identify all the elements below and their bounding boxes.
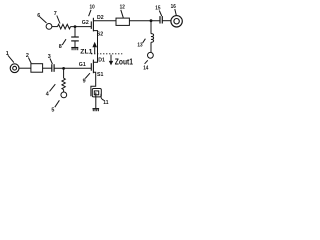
svg-text:12: 12 bbox=[120, 5, 125, 11]
wire bbox=[71, 26, 92, 28]
svg-text:G1: G1 bbox=[79, 62, 86, 68]
node junction bbox=[74, 25, 77, 28]
svg-text:D2: D2 bbox=[97, 15, 104, 21]
resistor 4 bbox=[62, 78, 65, 89]
port 5 bbox=[61, 92, 67, 98]
wire bbox=[63, 68, 65, 78]
label 5 bbox=[51, 100, 59, 113]
label 3 bbox=[48, 54, 53, 64]
wire S2 to D1 bbox=[93, 31, 97, 63]
wire drain node to inductor bbox=[150, 21, 152, 34]
label 2 bbox=[26, 53, 31, 63]
wire bbox=[52, 26, 58, 28]
svg-text:13: 13 bbox=[137, 43, 142, 49]
inductor 13 bbox=[151, 34, 154, 43]
wire drain D2 bbox=[93, 20, 116, 22]
capacitor 15 bbox=[160, 16, 162, 23]
port 14 bbox=[148, 52, 154, 58]
dashed reference line bbox=[91, 53, 122, 55]
transistor Q1 gate bar bbox=[90, 63, 92, 70]
wire bbox=[19, 67, 31, 69]
label 4 bbox=[46, 84, 56, 97]
transistor Q2 channel bbox=[92, 18, 94, 32]
svg-text:6: 6 bbox=[37, 13, 40, 19]
label 10 bbox=[89, 5, 95, 17]
node junction bbox=[150, 19, 153, 22]
port 1 bbox=[10, 64, 19, 73]
transistor Q2 gate bar bbox=[90, 21, 92, 29]
transistor Q1 channel bbox=[92, 60, 94, 74]
wire center tap bbox=[95, 92, 97, 108]
wire bbox=[162, 20, 171, 22]
inductor 11 spiral inner bbox=[94, 91, 98, 95]
label 15 bbox=[155, 6, 161, 16]
label 8 bbox=[59, 39, 66, 50]
label 1 bbox=[6, 51, 14, 63]
label 14 bbox=[143, 60, 148, 71]
wire gate G1 bbox=[54, 67, 91, 69]
svg-text:G2: G2 bbox=[82, 20, 89, 26]
wire S1 bbox=[91, 72, 96, 96]
svg-text:14: 14 bbox=[143, 66, 148, 72]
capacitor 8 bbox=[71, 27, 79, 48]
wire bbox=[129, 20, 159, 22]
label 9 bbox=[83, 73, 90, 84]
svg-text:9: 9 bbox=[83, 79, 86, 85]
arrow ZL1 bbox=[92, 42, 97, 54]
label 6 bbox=[37, 13, 46, 23]
arrow Zout1 bbox=[109, 55, 113, 66]
ground bbox=[93, 109, 100, 112]
svg-text:8: 8 bbox=[59, 44, 62, 50]
inductor 11 spiral outer bbox=[92, 89, 101, 97]
resistor 12 box bbox=[116, 18, 129, 25]
svg-text:D1: D1 bbox=[98, 58, 105, 64]
svg-text:Zout1: Zout1 bbox=[115, 57, 134, 66]
label 13 bbox=[137, 39, 145, 49]
resistor 7 bbox=[58, 24, 71, 29]
svg-text:7: 7 bbox=[54, 11, 57, 17]
label 7 bbox=[54, 11, 60, 24]
svg-text:11: 11 bbox=[103, 100, 108, 106]
node junction bbox=[62, 67, 65, 70]
wire bbox=[63, 90, 65, 92]
wire bbox=[43, 67, 52, 69]
svg-text:4: 4 bbox=[46, 91, 49, 97]
svg-text:S1: S1 bbox=[97, 72, 103, 78]
ground bbox=[71, 48, 78, 51]
capacitor 3 bbox=[52, 64, 54, 72]
label 16 bbox=[171, 4, 177, 15]
svg-text:ZL1: ZL1 bbox=[80, 48, 92, 55]
resistor 2 box bbox=[31, 64, 43, 72]
port 6 bbox=[46, 24, 52, 30]
label 11 bbox=[101, 94, 109, 106]
label 12 bbox=[120, 5, 125, 18]
svg-text:10: 10 bbox=[90, 5, 95, 11]
wire bbox=[150, 42, 152, 52]
port 16 bbox=[171, 16, 182, 27]
svg-text:5: 5 bbox=[51, 107, 54, 113]
